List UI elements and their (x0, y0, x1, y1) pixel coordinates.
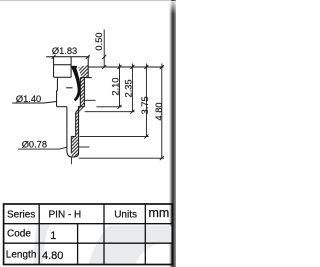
svg-text:4.80: 4.80 (154, 102, 164, 120)
svg-text:mm: mm (149, 206, 170, 220)
svg-text:Series: Series (7, 209, 35, 220)
svg-text:PIN - H: PIN - H (49, 209, 82, 220)
svg-text:4.80: 4.80 (42, 250, 63, 262)
svg-text:2.35: 2.35 (123, 79, 133, 97)
svg-text:Code: Code (7, 228, 31, 239)
svg-text:0.50: 0.50 (94, 32, 104, 50)
svg-text:Ø1.83: Ø1.83 (52, 46, 77, 56)
svg-text:1: 1 (50, 230, 56, 242)
svg-text:Length: Length (6, 249, 37, 260)
svg-text:2.10: 2.10 (110, 78, 120, 96)
svg-text:Ø0.78: Ø0.78 (22, 140, 47, 150)
svg-text:Ø1.40: Ø1.40 (16, 94, 41, 104)
svg-text:3.75: 3.75 (140, 96, 150, 114)
svg-text:Units: Units (114, 209, 137, 220)
